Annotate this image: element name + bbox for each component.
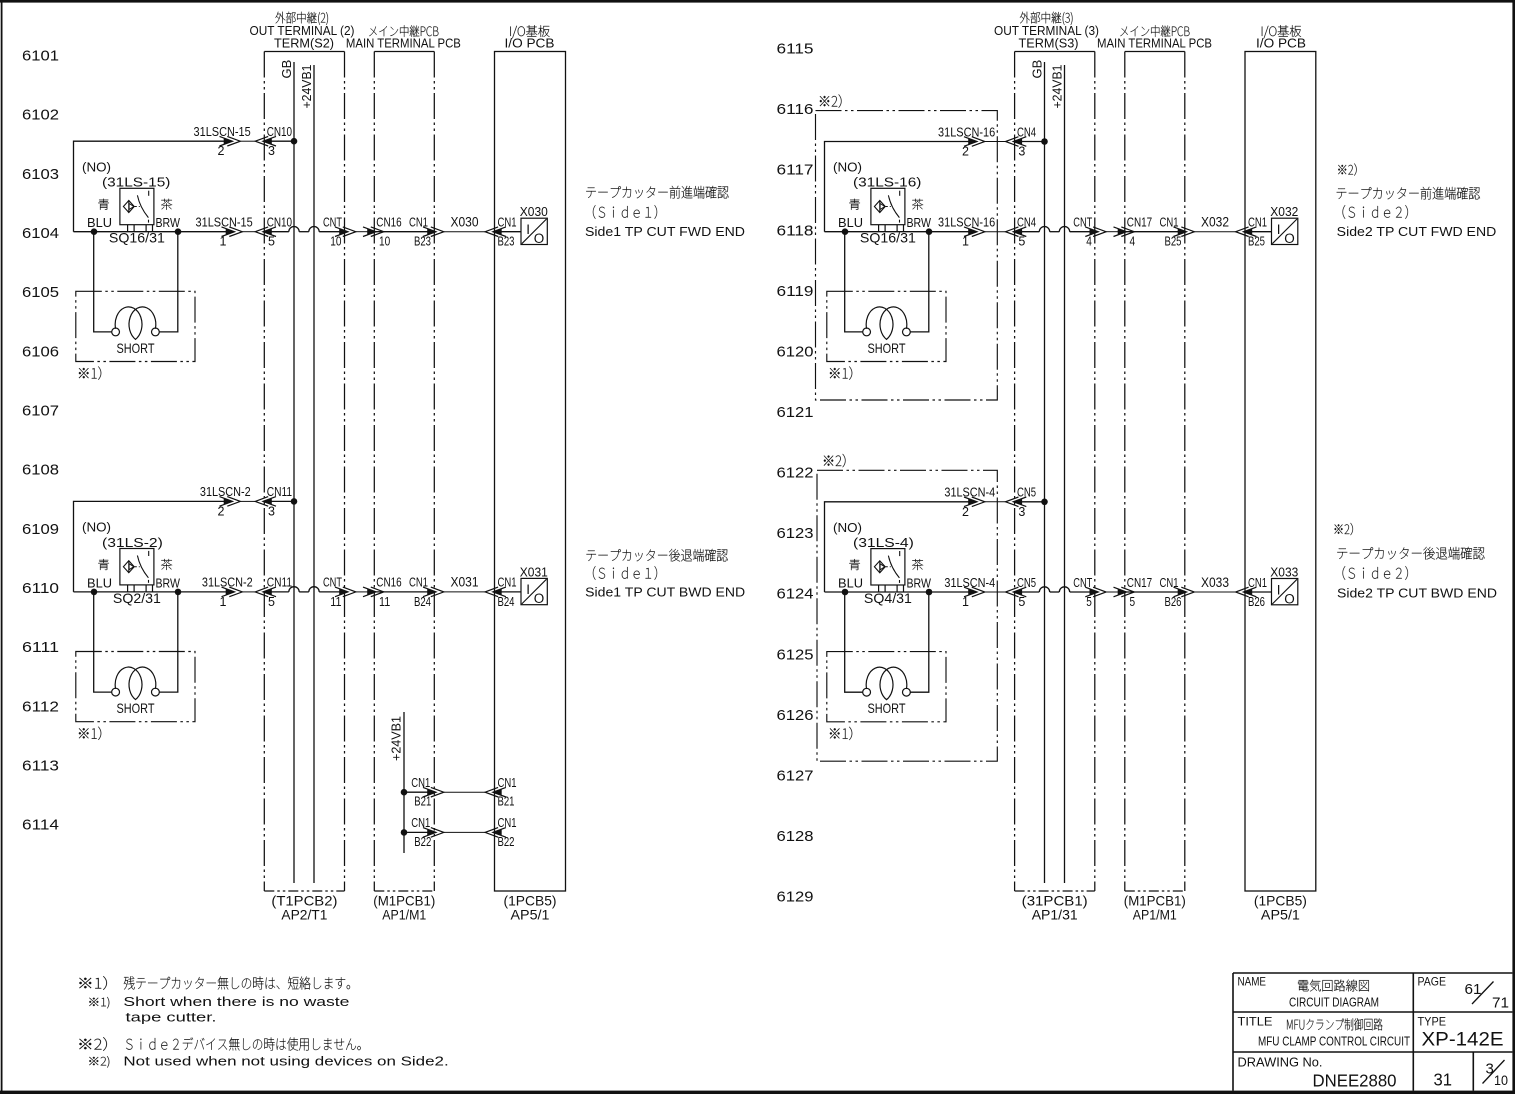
wire CN4-3 to GB bus: [1015, 141, 1045, 143]
title block: [1233, 973, 1512, 1091]
svg-text:5: 5: [1130, 595, 1136, 609]
connector CN1 pin B23 (I/O side): [485, 215, 516, 249]
limit switch 31LS-16 SQ16/31: [833, 160, 932, 246]
svg-text:1: 1: [962, 235, 969, 249]
svg-text:B21: B21: [498, 795, 515, 809]
wire CN10-3 to GB bus: [265, 140, 295, 142]
svg-text:XP-142E: XP-142E: [1422, 1030, 1504, 1051]
junction BLU: [842, 228, 849, 235]
junction BLU: [91, 589, 98, 596]
svg-text:1: 1: [220, 235, 227, 249]
svg-text:X033: X033: [1270, 565, 1298, 580]
optional-device box ※2 (lower): [817, 454, 997, 761]
svg-text:DNEE2880: DNEE2880: [1313, 1071, 1397, 1091]
svg-text:CN16: CN16: [376, 215, 401, 230]
svg-text:CN1: CN1: [498, 815, 517, 830]
svg-text:AP5/1: AP5/1: [1261, 906, 1300, 922]
board name M1PCB1: [373, 893, 435, 923]
junction BRW: [926, 589, 933, 596]
header I/O PCB: [505, 25, 555, 50]
svg-text:5: 5: [268, 595, 275, 609]
wire to I/O point X033: [1245, 591, 1272, 593]
svg-text:BRW: BRW: [156, 575, 181, 590]
svg-text:31LSCN-15: 31LSCN-15: [196, 215, 253, 230]
wire 31LSCN-16 pin2 branch: [825, 142, 976, 232]
svg-text:Side2 TP CUT FWD END: Side2 TP CUT FWD END: [1337, 224, 1497, 239]
svg-text:I/O PCB: I/O PCB: [1256, 36, 1306, 51]
connector CN1 pin B21 (I/O side): [485, 775, 516, 809]
row labels 6115-6129: [777, 41, 814, 906]
I/O point X033: [1270, 565, 1298, 607]
svg-text:B22: B22: [498, 835, 515, 849]
connector CN1 pin B21 (MAIN side): [411, 775, 444, 809]
svg-text:I/O PCB: I/O PCB: [505, 36, 555, 51]
wire CN11-5 to CNT: [265, 591, 289, 593]
svg-text:BLU: BLU: [838, 215, 863, 230]
wire mate 31LSCN-15-2 to CN10-3: [240, 140, 255, 142]
svg-text:6114: 6114: [22, 817, 59, 834]
wire mate 31LSCN-4-1 to CN5-5: [985, 591, 1006, 593]
svg-text:X031: X031: [451, 575, 479, 590]
svg-text:CN10: CN10: [267, 124, 292, 139]
connector 31LSCN-16 pin 1: [938, 215, 995, 249]
I/O point X030: [520, 204, 548, 246]
svg-text:CN1: CN1: [411, 815, 430, 830]
wire mate 31LSCN-15-1 to CN10-5: [242, 231, 255, 233]
wire row SQ16/31: [74, 231, 234, 233]
svg-text:B26: B26: [1248, 595, 1265, 609]
connector CN1 pin B25 (I/O side): [1236, 215, 1267, 249]
svg-text:6101: 6101: [22, 48, 59, 65]
svg-text:X030: X030: [451, 215, 479, 230]
connector CN5 pin 5: [1006, 575, 1037, 609]
svg-text:2: 2: [218, 504, 225, 518]
svg-text:CN1: CN1: [1248, 215, 1267, 230]
annotation Side2 TP CUT FWD END: [1337, 163, 1497, 239]
junction BRW: [175, 228, 182, 235]
svg-text:11: 11: [379, 595, 390, 609]
short plug SHORT: [827, 291, 946, 361]
svg-text:AP5/1: AP5/1: [511, 906, 550, 922]
note ref ※1): [830, 366, 852, 379]
svg-text:CN5: CN5: [1017, 575, 1036, 590]
svg-text:BLU: BLU: [87, 215, 112, 230]
I/O point X031: [520, 564, 548, 606]
svg-text:+24VB1: +24VB1: [299, 65, 314, 109]
svg-text:CN1: CN1: [409, 575, 428, 590]
limit switch 31LS-4 SQ4/31: [833, 520, 932, 606]
annotation Side2 TP CUT BWD END: [1335, 523, 1497, 601]
svg-text:6110: 6110: [22, 580, 59, 597]
note ※1 english: [89, 994, 349, 1024]
wire CN16 row: [375, 231, 435, 233]
junction BRW: [175, 589, 182, 596]
svg-text:B23: B23: [498, 235, 515, 249]
svg-text:(NO): (NO): [82, 520, 111, 535]
wire BLU to SHORT: [94, 232, 112, 332]
header OUT TERMINAL: [994, 12, 1099, 51]
svg-text:CN17: CN17: [1127, 215, 1152, 230]
net X031: [444, 575, 485, 592]
svg-text:SQ2/31: SQ2/31: [113, 590, 161, 606]
header MAIN TERMINAL PCB: [1097, 25, 1212, 50]
wire mate 31LSCN-16-2 to CN4-3: [985, 141, 1006, 143]
svg-text:1: 1: [220, 595, 227, 609]
svg-text:X030: X030: [520, 204, 548, 219]
+24VB1 bus: [1049, 65, 1064, 884]
svg-text:O: O: [1284, 231, 1295, 246]
connector CNT pin 11 (TERM side): [323, 575, 356, 609]
note ※2 japanese: [79, 1037, 360, 1051]
junction on GB bus: [291, 138, 298, 145]
junction +24VB1 / B22: [401, 829, 408, 836]
svg-text:6115: 6115: [777, 41, 814, 58]
svg-text:TITLE: TITLE: [1238, 1015, 1273, 1029]
svg-text:(NO): (NO): [833, 520, 862, 535]
limit switch 31LS-15 SQ16/31: [82, 160, 181, 246]
svg-text:31: 31: [1434, 1070, 1453, 1090]
wire mate B21: [444, 791, 485, 793]
wire BLU to SHORT: [845, 592, 863, 692]
svg-text:O: O: [1284, 591, 1295, 606]
header I/O PCB: [1256, 25, 1306, 50]
GB bus: [1029, 60, 1044, 883]
svg-text:1: 1: [962, 595, 969, 609]
svg-text:10: 10: [379, 235, 390, 249]
svg-text:5: 5: [1018, 235, 1025, 249]
svg-text:O: O: [534, 591, 545, 606]
svg-text:CN1: CN1: [409, 215, 428, 230]
connector 31LSCN-2 pin 1: [202, 575, 253, 609]
GB bus: [279, 60, 294, 883]
svg-text:AP1/M1: AP1/M1: [382, 906, 426, 922]
optional-device box ※2 (upper): [816, 94, 998, 400]
svg-text:(NO): (NO): [833, 160, 862, 175]
board name 1PCB5: [1254, 893, 1307, 923]
label CN17 pin 4: [1127, 215, 1152, 249]
svg-text:NAME: NAME: [1238, 975, 1267, 989]
svg-text:Side1 TP CUT BWD END: Side1 TP CUT BWD END: [585, 585, 745, 600]
svg-text:CN16: CN16: [376, 575, 401, 590]
header MAIN TERMINAL PCB: [346, 25, 461, 50]
svg-text:Side2 TP CUT BWD END: Side2 TP CUT BWD END: [1337, 586, 1497, 601]
+24VB1 feed line: [389, 712, 405, 853]
svg-text:4: 4: [1130, 235, 1136, 249]
svg-text:Not used when not using device: Not used when not using devices on Side2…: [123, 1054, 448, 1069]
svg-text:SHORT: SHORT: [117, 700, 155, 716]
svg-text:6127: 6127: [777, 767, 814, 784]
svg-text:2: 2: [962, 505, 969, 519]
wire mate CNT cable: [1106, 231, 1118, 233]
svg-text:31LSCN-2: 31LSCN-2: [200, 484, 251, 499]
limit switch 31LS-2 SQ2/31: [82, 520, 181, 606]
connector CNT pin 5 (TERM side): [1073, 575, 1106, 609]
svg-text:6106: 6106: [22, 343, 59, 360]
wire BRW to SHORT: [160, 592, 178, 692]
svg-text:CN1: CN1: [411, 775, 430, 790]
svg-text:B22: B22: [414, 835, 431, 849]
junction on GB bus: [1041, 138, 1048, 145]
svg-text:61: 61: [1465, 981, 1482, 998]
board name M1PCB1: [1124, 893, 1186, 923]
connector CNT (MAIN side): [1114, 227, 1135, 237]
svg-text:B26: B26: [1165, 595, 1182, 609]
svg-text:(31LS-15): (31LS-15): [102, 175, 170, 190]
connector CN4 pin 5: [1006, 215, 1037, 249]
svg-text:CN17: CN17: [1127, 575, 1152, 590]
svg-text:SHORT: SHORT: [117, 340, 155, 356]
svg-text:Side1 TP CUT FWD END: Side1 TP CUT FWD END: [585, 224, 745, 239]
svg-text:6126: 6126: [777, 707, 814, 724]
connector CN1 pin B26 (I/O side): [1236, 575, 1267, 609]
svg-text:X032: X032: [1270, 204, 1298, 219]
svg-text:AP1/M1: AP1/M1: [1133, 906, 1177, 922]
svg-text:71: 71: [1492, 995, 1509, 1012]
svg-text:CNT: CNT: [1073, 215, 1092, 230]
svg-text:6116: 6116: [777, 101, 814, 118]
svg-text:CN10: CN10: [267, 215, 292, 230]
wire CN16 row: [375, 591, 435, 593]
wire mate CNT cable: [356, 591, 368, 593]
net X030: [444, 215, 485, 232]
svg-text:BRW: BRW: [156, 215, 181, 230]
svg-text:GB: GB: [1029, 60, 1044, 79]
wire mate 31LSCN-2-2 to CN11-3: [240, 500, 255, 502]
wire CN17 row: [1125, 231, 1185, 233]
junction BLU: [842, 589, 849, 596]
svg-text:3: 3: [268, 144, 275, 158]
svg-text:SQ16/31: SQ16/31: [109, 230, 165, 246]
svg-text:CNT: CNT: [1073, 575, 1092, 590]
wire 31LSCN-15 pin2 branch: [74, 141, 232, 232]
wire BRW to SHORT: [911, 232, 929, 332]
svg-text:CN1: CN1: [1160, 215, 1179, 230]
svg-text:6117: 6117: [777, 162, 814, 179]
svg-text:MAIN TERMINAL PCB: MAIN TERMINAL PCB: [1097, 36, 1212, 51]
connector CN1 pin B26 (MAIN side): [1160, 575, 1195, 609]
wire BRW to SHORT: [160, 232, 178, 332]
svg-text:TERM(S2): TERM(S2): [274, 36, 334, 51]
connector 31LSCN-15 pin 2: [194, 124, 251, 158]
I/O point X032: [1270, 204, 1298, 246]
svg-text:CN1: CN1: [498, 775, 517, 790]
svg-text:CN1: CN1: [1248, 575, 1267, 590]
svg-text:+24VB1: +24VB1: [389, 716, 404, 761]
wire mate CNT cable: [1106, 591, 1118, 593]
svg-text:B24: B24: [498, 595, 515, 609]
junction on GB bus: [1041, 499, 1048, 506]
wire CN11-3 to GB bus: [265, 500, 295, 502]
svg-text:B25: B25: [1165, 235, 1182, 249]
short plug SHORT: [827, 652, 946, 722]
svg-text:B21: B21: [414, 795, 431, 809]
svg-text:PAGE: PAGE: [1418, 975, 1447, 989]
svg-text:31LSCN-16: 31LSCN-16: [938, 124, 995, 139]
connector CN10 pin 5: [255, 215, 292, 249]
+24VB1 bus: [299, 65, 314, 884]
note ref ※1): [830, 727, 852, 740]
svg-text:BLU: BLU: [838, 576, 863, 591]
svg-text:3: 3: [1018, 505, 1025, 519]
wire +24VB1 to CN1-B22: [404, 831, 435, 833]
connector CN10 pin 3: [255, 124, 292, 158]
header OUT TERMINAL: [250, 12, 355, 51]
wire CN4-5 to CNT: [1015, 231, 1040, 233]
svg-text:TERM(S3): TERM(S3): [1019, 36, 1079, 51]
net X033: [1194, 575, 1235, 592]
svg-text:CN11: CN11: [267, 484, 292, 499]
board name T/TERM PCB: [1022, 893, 1088, 923]
wire mate 31LSCN-2-1 to CN11-5: [242, 591, 255, 593]
wire row SQ2/31: [74, 591, 234, 593]
connector CN1 pin B25 (MAIN side): [1160, 215, 1195, 249]
short plug SHORT: [76, 291, 195, 361]
junction BRW: [926, 228, 933, 235]
svg-text:SHORT: SHORT: [868, 700, 906, 716]
svg-text:MAIN TERMINAL PCB: MAIN TERMINAL PCB: [346, 36, 461, 51]
svg-text:+24VB1: +24VB1: [1049, 65, 1064, 109]
svg-text:X032: X032: [1201, 215, 1229, 230]
annotation Side1 TP CUT BWD END: [585, 549, 745, 600]
svg-text:10: 10: [1494, 1073, 1508, 1088]
svg-text:31LSCN-15: 31LSCN-15: [194, 124, 251, 139]
svg-text:AP2/T1: AP2/T1: [281, 906, 327, 922]
svg-text:X033: X033: [1201, 575, 1229, 590]
svg-text:(31LS-2): (31LS-2): [102, 535, 163, 550]
board I/O PCB outline: [495, 52, 566, 892]
board name T/TERM PCB: [271, 893, 337, 923]
svg-text:6113: 6113: [22, 758, 59, 775]
svg-text:6107: 6107: [22, 403, 59, 420]
svg-text:6104: 6104: [22, 225, 59, 242]
svg-text:31LSCN-4: 31LSCN-4: [944, 485, 995, 500]
svg-text:I: I: [1277, 222, 1281, 237]
svg-text:6112: 6112: [22, 698, 59, 715]
svg-text:AP1/31: AP1/31: [1032, 906, 1078, 922]
label CN17 pin 5: [1127, 575, 1152, 609]
svg-text:CN11: CN11: [267, 575, 292, 590]
wire to I/O point X030: [494, 231, 521, 233]
svg-text:I: I: [1277, 582, 1281, 597]
svg-text:BLU: BLU: [87, 575, 112, 590]
svg-text:31LSCN-2: 31LSCN-2: [202, 575, 253, 590]
connector CN11 pin 5: [255, 575, 292, 609]
svg-text:B25: B25: [1248, 235, 1265, 249]
connector CN1 pin B24 (MAIN side): [409, 575, 444, 609]
wire 31LSCN-2 pin2 branch: [74, 501, 232, 592]
svg-text:6123: 6123: [777, 525, 814, 542]
svg-text:SQ4/31: SQ4/31: [864, 590, 912, 606]
svg-text:31LSCN-16: 31LSCN-16: [938, 215, 995, 230]
wire row SQ4/31: [825, 591, 976, 593]
connector 31LSCN-15 pin 1: [196, 215, 253, 249]
svg-text:DRAWING No.: DRAWING No.: [1238, 1056, 1323, 1070]
svg-text:BRW: BRW: [907, 576, 932, 591]
connector CNT (MAIN side): [363, 587, 384, 597]
note ※1 japanese: [79, 976, 350, 990]
connector CN11 pin 3: [255, 484, 292, 518]
label CN16 pin 11: [376, 575, 401, 609]
svg-text:6109: 6109: [22, 521, 59, 538]
connector CN1 pin B22 (I/O side): [485, 815, 516, 849]
svg-text:6122: 6122: [777, 465, 814, 482]
junction BLU: [91, 228, 98, 235]
svg-text:4: 4: [1086, 235, 1092, 249]
annotation Side1 TP CUT FWD END: [585, 186, 745, 239]
svg-text:BRW: BRW: [907, 215, 932, 230]
svg-text:CN1: CN1: [498, 215, 517, 230]
svg-text:CN1: CN1: [1160, 575, 1179, 590]
note ※2 english: [89, 1054, 448, 1069]
row labels 6101-6114: [22, 48, 59, 834]
connector CN1 pin B23 (MAIN side): [409, 215, 444, 249]
connector CNT pin 4 (TERM side): [1073, 215, 1106, 249]
svg-text:6118: 6118: [777, 222, 814, 239]
svg-text:2: 2: [962, 145, 969, 159]
wire mate CNT cable: [356, 231, 368, 233]
svg-text:SHORT: SHORT: [868, 340, 906, 356]
board OUT TERMINAL (3) outline: [1015, 52, 1095, 892]
svg-text:6111: 6111: [22, 639, 59, 656]
svg-text:31LSCN-4: 31LSCN-4: [944, 575, 995, 590]
svg-text:6102: 6102: [22, 107, 59, 124]
connector 31LSCN-4 pin 1: [944, 575, 995, 609]
wire row SQ16/31: [825, 231, 976, 233]
wire mate 31LSCN-16-1 to CN4-5: [985, 231, 1006, 233]
svg-text:6108: 6108: [22, 462, 59, 479]
junction on GB bus: [291, 498, 298, 505]
wire to I/O point X032: [1245, 231, 1272, 233]
svg-text:tape cutter.: tape cutter.: [126, 1009, 217, 1024]
connector CNT (MAIN side): [363, 227, 384, 237]
svg-text:CN4: CN4: [1017, 124, 1036, 139]
svg-text:O: O: [534, 231, 545, 246]
connector CN1 pin B22 (MAIN side): [411, 815, 444, 849]
svg-text:2: 2: [218, 144, 225, 158]
wire mate B22: [444, 831, 485, 833]
svg-text:5: 5: [1086, 595, 1092, 609]
connector 31LSCN-16 pin 2: [938, 124, 995, 158]
connector CNT pin 10 (TERM side): [323, 215, 356, 249]
svg-text:CNT: CNT: [323, 215, 342, 230]
svg-text:11: 11: [330, 595, 341, 609]
connector 31LSCN-4 pin 2: [944, 485, 995, 519]
junction +24VB1 / B21: [401, 789, 408, 796]
wire to I/O point X031: [494, 591, 521, 593]
wire mate 31LSCN-4-2 to CN5-3: [985, 501, 1006, 503]
svg-text:MFU CLAMP CONTROL CIRCUIT: MFU CLAMP CONTROL CIRCUIT: [1258, 1034, 1410, 1049]
svg-text:6120: 6120: [777, 343, 814, 360]
svg-text:3: 3: [1018, 145, 1025, 159]
svg-text:B23: B23: [414, 235, 431, 249]
svg-text:CNT: CNT: [323, 575, 342, 590]
wire CN17 row: [1125, 591, 1185, 593]
net X032: [1194, 215, 1235, 232]
board I/O PCB outline: [1245, 52, 1316, 892]
board name 1PCB5: [504, 893, 557, 923]
svg-text:6125: 6125: [777, 646, 814, 663]
svg-text:I: I: [526, 582, 530, 597]
svg-text:CN1: CN1: [498, 575, 517, 590]
wire BLU to SHORT: [845, 232, 863, 332]
short plug SHORT: [76, 652, 195, 722]
board OUT TERMINAL (2) outline: [264, 52, 344, 892]
svg-text:CN4: CN4: [1017, 215, 1036, 230]
svg-text:5: 5: [268, 235, 275, 249]
svg-text:6105: 6105: [22, 284, 59, 301]
svg-text:(NO): (NO): [82, 160, 111, 175]
wire 31LSCN-4 pin2 branch: [825, 502, 976, 592]
